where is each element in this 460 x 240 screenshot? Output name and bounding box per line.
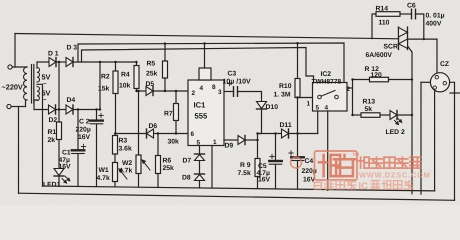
resistor R12 120 [351, 77, 413, 82]
label 6A/600V [366, 52, 393, 59]
svg-text:30k: 30k [168, 139, 180, 146]
svg-text:C3: C3 [228, 71, 237, 78]
svg-text:D5: D5 [146, 81, 155, 88]
svg-text:3.6k: 3.6k [119, 146, 132, 153]
svg-text:8: 8 [212, 84, 216, 91]
svg-text:4: 4 [200, 85, 204, 92]
label D11 [280, 122, 292, 129]
svg-text:D6: D6 [149, 123, 158, 130]
label D4 [67, 97, 76, 104]
label ~220V [2, 83, 23, 92]
capacitor C4 220u/16V [291, 134, 304, 189]
svg-text:3: 3 [218, 89, 222, 96]
label D9 [225, 143, 234, 150]
wire: D11 anode row [258, 133, 282, 135]
resistor R10 1.3M [295, 42, 300, 134]
wire: IC2 pin5 down [317, 111, 319, 134]
transformer T primary winding [24, 67, 27, 100]
neutral bottom line [19, 193, 455, 200]
svg-text:R6: R6 [163, 158, 172, 165]
diode D6 [147, 129, 154, 138]
wire: D2-D4 row [56, 109, 101, 111]
label R6 25k [163, 158, 175, 173]
svg-text:110: 110 [379, 20, 390, 27]
svg-text:D7: D7 [183, 158, 192, 165]
label C5 [257, 163, 271, 184]
svg-text:~: ~ [43, 82, 47, 88]
svg-text:D4: D4 [67, 97, 76, 104]
svg-text:D10: D10 [266, 104, 279, 111]
op-amp-timer IC1 555 box [188, 80, 224, 146]
svg-text:2: 2 [347, 86, 351, 93]
wire: D10 down / R9 column [256, 109, 261, 159]
pin 3 of IC1 [218, 89, 222, 96]
svg-text:25k: 25k [146, 71, 158, 78]
label 555 [195, 112, 208, 121]
label IC2 [321, 71, 332, 78]
label LED1 [43, 182, 61, 189]
svg-text:C4: C4 [305, 158, 314, 165]
label R7 [164, 111, 173, 118]
wire: R1 to LED1 [58, 140, 60, 169]
capacitor C3 10u/10V [234, 87, 238, 97]
wire: pin3 out [224, 91, 234, 93]
wire: CZ bottom pin to ground rail [434, 89, 436, 191]
wire: R3 to W1 [114, 154, 116, 163]
svg-text:R10: R10 [279, 83, 292, 90]
label R2 15k [98, 74, 110, 93]
label R12 [365, 66, 383, 79]
thyristor SCR 6A/600V [399, 27, 408, 50]
label C2 [76, 119, 91, 142]
svg-text:120: 120 [371, 72, 383, 79]
IC1 top tab [199, 42, 211, 80]
wire: D7 to D8 [199, 161, 201, 175]
wire: D11 cathode to IC2 pin5 [274, 132, 317, 134]
svg-text:2k: 2k [48, 137, 56, 144]
resistor R7 30k [174, 90, 179, 135]
svg-text:D 1: D 1 [48, 51, 59, 58]
svg-text:1: 1 [307, 101, 311, 108]
label W1 4.7k [97, 167, 110, 182]
label W2 4.7k [119, 160, 132, 175]
wire: D3/D4 output tie line [99, 61, 101, 111]
svg-text:15k: 15k [98, 86, 110, 93]
svg-text:400V: 400V [426, 21, 442, 28]
polarity + of C1 [81, 144, 85, 148]
wire: C6 to SCR cathode side [416, 14, 425, 40]
svg-text:16V: 16V [78, 134, 91, 141]
wire: IC2 pin4 to ground rail [327, 111, 329, 190]
diode D5 [146, 87, 153, 96]
resistor R1 [57, 122, 62, 140]
wire: D1-D3 row [56, 61, 137, 63]
svg-text:C 2: C 2 [79, 119, 90, 126]
svg-text:TWH8778: TWH8778 [312, 79, 342, 86]
ground rail [43, 186, 435, 191]
polarity + of C5 [270, 154, 274, 158]
label D8 [182, 175, 191, 182]
label C1 [59, 150, 72, 171]
svg-text:TM: TM [353, 152, 360, 157]
pin 2 of IC1 [192, 90, 196, 97]
svg-text:C5: C5 [258, 163, 267, 170]
svg-text:16V: 16V [258, 177, 271, 184]
pin 1 of IC1 [213, 139, 217, 146]
wire: CZ right to earth tick [450, 82, 460, 93]
label D3 [67, 45, 78, 52]
resistor R4 [134, 61, 139, 89]
svg-text:CZ: CZ [440, 61, 449, 68]
svg-text:R1: R1 [48, 129, 57, 136]
wire: secondary bottom to D2 row [34, 100, 49, 110]
LED LED1 [54, 169, 70, 184]
diode D1 [49, 58, 56, 67]
svg-text:D11: D11 [280, 122, 292, 129]
svg-text:6A/600V: 6A/600V [366, 52, 393, 59]
svg-text:4.7k: 4.7k [97, 175, 110, 182]
wire: center tap down to ground rail [37, 84, 43, 186]
capacitor C1 47u/16V [72, 108, 85, 186]
wire: IC2 pin1 to R10 [298, 97, 313, 99]
wire: R2 to R3 [115, 94, 117, 136]
svg-text:LED1: LED1 [43, 182, 61, 189]
pin 5 of IC2 [316, 105, 320, 112]
label R1 2k [48, 129, 57, 144]
switch-IC U2 TWH8778 box [313, 83, 348, 112]
svg-text:R7: R7 [164, 111, 173, 118]
socket CZ [430, 73, 449, 92]
resistor R5 [163, 42, 168, 92]
node X column (rectifier junction) [58, 61, 60, 122]
svg-text:10k: 10k [119, 83, 131, 90]
label D7 [183, 158, 192, 165]
svg-text:LED 2: LED 2 [386, 129, 405, 136]
svg-text:R3: R3 [119, 138, 128, 145]
wire: CZ left pin to neutral [421, 82, 430, 194]
wire: right border / earth run [454, 93, 456, 200]
svg-text:IC: IC [359, 181, 369, 192]
svg-text:~: ~ [43, 98, 47, 104]
label LED2 [386, 129, 405, 136]
label C4 [302, 158, 317, 184]
wire: IC2 pin2 out [347, 80, 353, 116]
resistor R14 110 [372, 12, 412, 39]
wire: SCR output row [408, 38, 438, 40]
svg-text:C1: C1 [62, 150, 71, 157]
svg-text:D8: D8 [182, 175, 191, 182]
label 5V upper [42, 73, 51, 88]
transformer secondary winding 1 (5V) [37, 68, 40, 83]
wire: D8 to ground rail [199, 181, 201, 188]
resistor R9 [255, 159, 260, 177]
wire: pin1 to ground rail [211, 146, 213, 188]
diode D4 [66, 105, 73, 114]
switch contacts inside IC2 [318, 91, 339, 99]
svg-text:7.5k: 7.5k [238, 170, 251, 177]
label R10 [274, 83, 292, 99]
terminal T1 (~220V live) [8, 65, 27, 69]
svg-text:R14: R14 [376, 6, 389, 13]
svg-text:16V: 16V [59, 164, 72, 171]
pin 4 of IC2 [325, 105, 329, 112]
resistor R2 [113, 61, 118, 94]
terminal T2 (~220V neutral) [7, 104, 26, 108]
capacitor C5 4.7u/16V [269, 134, 282, 189]
svg-text:25k: 25k [163, 165, 175, 172]
wire: T2 riser to primary bottom [26, 100, 28, 107]
label 0.01u 400V [426, 13, 445, 28]
pin 1 of IC2 [307, 101, 311, 108]
pin 6 of IC1 [191, 131, 195, 138]
svg-text:W2: W2 [122, 160, 132, 167]
wire: neutral down line [18, 107, 20, 194]
potentiometer W2 [136, 155, 150, 174]
label R9 7.5k [238, 162, 251, 177]
svg-text:4.7k: 4.7k [119, 168, 132, 175]
label 5V lower [42, 89, 51, 104]
watermark dzsc.com [291, 151, 431, 192]
svg-text:0. 01µ: 0. 01µ [426, 13, 445, 20]
wire: R9 to ground rail [257, 177, 259, 189]
transformer secondary winding 2 (5V) [37, 87, 39, 101]
wire: 220V live top rail to SCR anode [15, 34, 399, 39]
pin 2 of IC2 [347, 86, 351, 93]
label D5 [146, 81, 155, 88]
polarity + of C3 [227, 81, 231, 85]
svg-text:~220V: ~220V [2, 83, 23, 92]
potentiometer W1 [113, 163, 128, 182]
label R4 10k [119, 72, 131, 90]
rail B [82, 48, 314, 83]
resistor R13 5k [351, 113, 390, 118]
svg-text:10µ /10V: 10µ /10V [223, 78, 251, 86]
pin 5 of IC1 [197, 140, 201, 147]
svg-text:555: 555 [195, 112, 208, 121]
svg-text:C6: C6 [407, 3, 416, 10]
label C6 [407, 3, 416, 10]
svg-text:2: 2 [192, 90, 196, 97]
svg-text:D 3: D 3 [67, 45, 78, 52]
wire: W1 to ground rail [114, 182, 116, 187]
wire: 555 pin6 row [114, 132, 188, 134]
svg-text:R2: R2 [101, 74, 110, 81]
diode D7 [195, 154, 205, 161]
svg-text:IC1: IC1 [194, 101, 207, 110]
svg-text:D9: D9 [225, 143, 234, 150]
wire: W2 to ground rail [138, 174, 140, 188]
polarity + of C2 [99, 113, 103, 117]
polarity + of C4 [289, 151, 293, 155]
label D6 [149, 123, 158, 130]
label D2 [49, 117, 58, 124]
svg-text:R13: R13 [363, 99, 376, 106]
wire: 555 pin2 row [135, 90, 188, 92]
wire: left drop from top rail to terminal [14, 34, 16, 68]
svg-text:R4: R4 [121, 72, 130, 79]
capacitor C6 0.01u/400V [412, 9, 416, 19]
label C3 [228, 71, 237, 78]
svg-text:1: 1 [213, 139, 217, 146]
pin 4 of IC1 [200, 85, 204, 92]
diode D9 [224, 136, 258, 145]
label TWH8778 [312, 79, 342, 86]
svg-text:5k: 5k [365, 106, 373, 113]
label R14 [376, 6, 390, 27]
label D10 [266, 104, 279, 111]
label 30k [168, 139, 180, 146]
wire: C3 to D10 [238, 92, 262, 102]
LED LED2 [390, 111, 413, 125]
svg-text:WWW.DZSC.COM: WWW.DZSC.COM [359, 171, 431, 180]
resistor R6 [156, 132, 161, 187]
rail A (+V unfiltered) [78, 43, 344, 83]
diode D8 [195, 174, 205, 181]
transformer core [32, 65, 34, 104]
diode D11 [282, 129, 289, 138]
pin 8 of IC1 [212, 84, 216, 91]
label SCR [384, 44, 398, 51]
wire: SCR gate lead [408, 46, 413, 194]
label R13 [363, 99, 376, 113]
label D1 [48, 51, 59, 58]
label IC1 [194, 101, 207, 110]
label 10u/10V [223, 78, 251, 86]
svg-text:1. 3M: 1. 3M [274, 92, 291, 99]
svg-text:IC2: IC2 [321, 71, 332, 78]
wire: SCR output down to socket [436, 39, 438, 73]
svg-text:R 9: R 9 [240, 162, 251, 169]
resistor R3 [113, 136, 118, 155]
svg-text:W1: W1 [99, 167, 109, 174]
svg-text:R5: R5 [147, 61, 156, 68]
diode D3 [66, 58, 73, 67]
svg-text:6: 6 [191, 131, 195, 138]
wire: secondary top to D1 row [37, 62, 49, 68]
wire: R4 to pin2 row [136, 89, 138, 92]
svg-text:SCR: SCR [384, 44, 398, 51]
potentiometer W2 column [137, 90, 139, 155]
wire: LED1 to ground rail [58, 176, 60, 186]
diode D10 [257, 102, 267, 110]
svg-text:5V: 5V [42, 73, 51, 82]
diode D2 [49, 105, 56, 114]
label R3 3.6k [119, 138, 132, 153]
label R5 25k [146, 61, 158, 78]
label CZ [440, 61, 449, 68]
wire: pin5 to D7 [199, 146, 201, 155]
capacitor C2 220u/16V [90, 108, 103, 186]
